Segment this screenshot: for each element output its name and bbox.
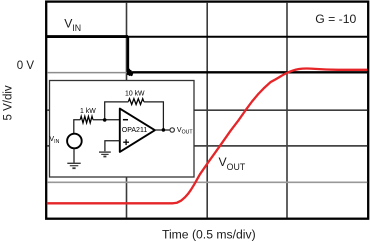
horizontal gridline row5 (47, 181, 367, 183)
source VIN circle (67, 134, 82, 149)
svg-text:5 V/div: 5 V/div (3, 85, 15, 120)
wire: source to ground (73, 148, 75, 163)
vertical gridline x3 (286, 3, 288, 218)
horizontal gridline row1 (black) (47, 36, 367, 38)
vertical gridline x1 (126, 3, 128, 218)
resistor R1 1kW zigzag (80, 116, 93, 123)
horizontal gridline 0V (47, 72, 367, 74)
svg-text:OPA211: OPA211 (122, 127, 148, 134)
svg-text:G = -10: G = -10 (315, 12, 356, 26)
trace VOUT (red) (47, 69, 368, 204)
resistor R2 10kW zigzag (128, 99, 143, 105)
wire: feedback left vertical and top (105, 102, 129, 120)
terminal VOUT (open circle) (170, 128, 174, 132)
svg-text:1 kW: 1 kW (80, 108, 96, 115)
trace VIN high segment (47, 35, 128, 38)
node: output junction (162, 128, 166, 132)
pin label minus (123, 119, 128, 121)
op-amp U1 OPA211 (120, 109, 155, 152)
wire: feedback right down to output (144, 102, 164, 130)
horizontal gridline row4 (47, 145, 367, 147)
wire: op-amp output (155, 129, 170, 131)
node: junction R1/R2/inverting input (103, 118, 107, 122)
vertical gridline x2 (206, 3, 208, 218)
wire: VIN source up to R1 (74, 120, 81, 133)
plot frame (46, 2, 368, 219)
svg-text:Time (0.5 ms/div): Time (0.5 ms/div) (162, 227, 256, 241)
ground (source) (67, 163, 80, 168)
svg-text:0 V: 0 V (17, 60, 35, 72)
horizontal gridline row3 (47, 109, 367, 111)
wire: R1 to op-amp inverting input (93, 119, 120, 121)
inset schematic box (50, 81, 195, 178)
pin label plus (123, 139, 129, 145)
svg-text:10 kW: 10 kW (125, 90, 145, 97)
ground (noninverting input) (99, 152, 111, 156)
wire: noninverting input to ground (105, 141, 120, 151)
trace VIN step and 0V segment (128, 37, 367, 75)
